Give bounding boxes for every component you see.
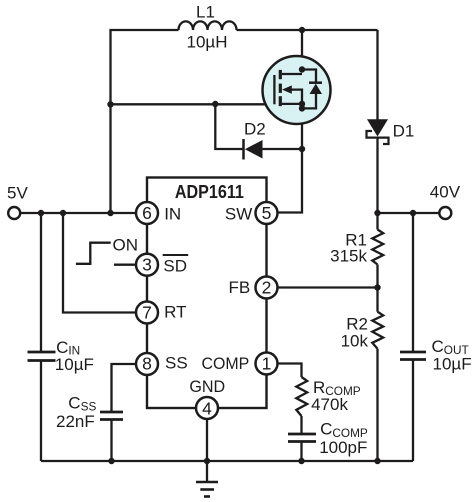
node 5V-B: [60, 210, 66, 216]
node gnd-CCOMP: [298, 458, 304, 464]
resistor R1: [372, 230, 383, 265]
svg-text:5: 5: [262, 203, 272, 223]
wire 5V input bus: [21, 212, 147, 214]
svg-text:7: 7: [142, 303, 152, 323]
IC U1 ADP1611 outline: [147, 178, 267, 409]
mosfet channel dashes: [279, 70, 282, 106]
svg-text:6: 6: [142, 203, 152, 223]
node gnd-CSS: [108, 458, 114, 464]
svg-text:CSS: CSS: [68, 394, 96, 414]
wire CIN bottom to ground bus: [40, 361, 42, 462]
resistor RCOMP: [296, 377, 307, 416]
svg-text:5V: 5V: [7, 184, 28, 203]
wire top bus right segment: [237, 29, 378, 31]
capacitor COUT plates: [400, 351, 426, 354]
mosfet body diode bar: [309, 81, 322, 84]
svg-text:10k: 10k: [341, 332, 369, 351]
wire pin 4 to ground: [206, 408, 208, 482]
node mosfet drain: [299, 66, 305, 72]
capacitor CSS plates: [100, 411, 123, 414]
svg-text:100pF: 100pF: [319, 438, 367, 457]
svg-text:8: 8: [142, 354, 152, 374]
pin 7 circle: [136, 302, 158, 324]
wire left line to CIN: [40, 213, 42, 352]
node 40V-COUT: [410, 210, 416, 216]
mosfet source connect: [282, 103, 302, 105]
node FB: [374, 284, 380, 290]
wire SW node to pin 5: [267, 149, 303, 213]
svg-text:10µF: 10µF: [433, 354, 472, 373]
svg-text:L1: L1: [196, 2, 215, 21]
mosfet gate bar: [273, 75, 275, 104]
node 40V-D1: [374, 210, 380, 216]
wire CSS bottom: [110, 420, 112, 462]
terminal 5V: [8, 207, 20, 219]
mosfet body diode cathode link: [302, 70, 316, 83]
diode D2 bar: [242, 139, 245, 160]
node SW-D2: [299, 146, 305, 152]
node gate: [107, 101, 113, 107]
pin 8 circle: [136, 353, 158, 375]
node drain top: [299, 27, 305, 33]
svg-text:D2: D2: [244, 119, 266, 138]
svg-text:D1: D1: [393, 121, 415, 140]
mosfet drain connect: [282, 73, 302, 75]
ground symbol: [196, 482, 218, 497]
svg-text:GND: GND: [189, 377, 225, 396]
svg-text:10µF: 10µF: [55, 355, 94, 374]
wire D2 cathode branch: [215, 104, 243, 149]
svg-text:10µH: 10µH: [187, 32, 228, 51]
wire CCOMP bottom: [300, 442, 302, 462]
wire RCOMP to CCOMP: [300, 416, 302, 434]
mosfet body connect with arrow tail: [291, 90, 302, 109]
svg-text:2: 2: [262, 278, 272, 298]
svg-text:SS: SS: [165, 354, 188, 373]
node 5V-A: [38, 210, 44, 216]
wire pin 3 stub: [114, 264, 147, 266]
pin 4 circle: [196, 397, 218, 419]
capacitor CIN plates: [28, 352, 427, 442]
diode D2 triangle: [245, 140, 263, 159]
capacitor CCOMP plates: [288, 433, 316, 436]
mosfet body diode anode link: [302, 94, 316, 108]
node gate-D2: [212, 101, 218, 107]
svg-text:ADP1611: ADP1611: [175, 181, 244, 202]
wire D1 top lead: [376, 30, 378, 120]
inductor L1: [179, 21, 237, 30]
svg-text:40V: 40V: [430, 183, 461, 202]
node gnd-pin4: [204, 458, 210, 464]
svg-text:1: 1: [262, 354, 272, 374]
svg-text:RT: RT: [164, 303, 186, 322]
pin 5 circle: [256, 202, 278, 224]
svg-text:470k: 470k: [311, 395, 348, 414]
svg-text:SD: SD: [163, 257, 187, 276]
wire ground bus: [41, 460, 413, 462]
wire ON step symbol: [76, 243, 111, 264]
wire R1 to R2 through FB node: [376, 265, 378, 312]
svg-text:315k: 315k: [330, 247, 367, 266]
wire COUT bottom: [412, 360, 414, 462]
svg-text:4: 4: [202, 398, 212, 418]
mosfet body diode triangle: [310, 84, 323, 94]
svg-text:3: 3: [142, 255, 152, 275]
node mosfet source: [299, 101, 305, 107]
wire pin 8 to CSS: [112, 364, 148, 412]
pin 2 circle: [256, 277, 278, 299]
wire mosfet source lead: [301, 104, 303, 149]
svg-text:SW: SW: [225, 204, 252, 223]
svg-text:FB: FB: [229, 278, 251, 297]
wire 40V output: [378, 212, 440, 214]
mosfet Q1 body: [263, 56, 331, 124]
resistor R2: [372, 312, 383, 349]
wire R2 bottom: [376, 349, 378, 461]
wire mosfet drain lead: [301, 30, 303, 74]
wire COUT top branch: [412, 213, 414, 352]
diode D1 schottky bar: [367, 131, 389, 144]
diode D1 triangle: [367, 119, 388, 136]
mosfet arrow: [282, 85, 292, 93]
svg-text:CCOMP: CCOMP: [320, 419, 368, 440]
pin 1 circle: [256, 353, 278, 375]
wire FB to divider: [267, 286, 378, 288]
node mosfet body: [299, 105, 305, 111]
svg-text:ON: ON: [113, 235, 139, 254]
node 5V-C: [107, 210, 113, 216]
wire gate: [111, 103, 275, 105]
node gnd-R2: [374, 458, 380, 464]
wire D1 bottom lead: [376, 138, 378, 230]
wire pin 1 to RCOMP: [267, 364, 302, 378]
wire RT branch: [63, 213, 147, 313]
svg-text:IN: IN: [164, 204, 181, 223]
pin 3 circle: [136, 254, 158, 276]
wire top bus left segment: [111, 30, 179, 213]
svg-text:COMP: COMP: [202, 354, 250, 373]
pin 6 circle: [136, 202, 158, 224]
svg-text:22nF: 22nF: [56, 412, 95, 431]
terminal 40V: [439, 207, 451, 219]
wire D2 anode to SW node: [263, 148, 303, 150]
